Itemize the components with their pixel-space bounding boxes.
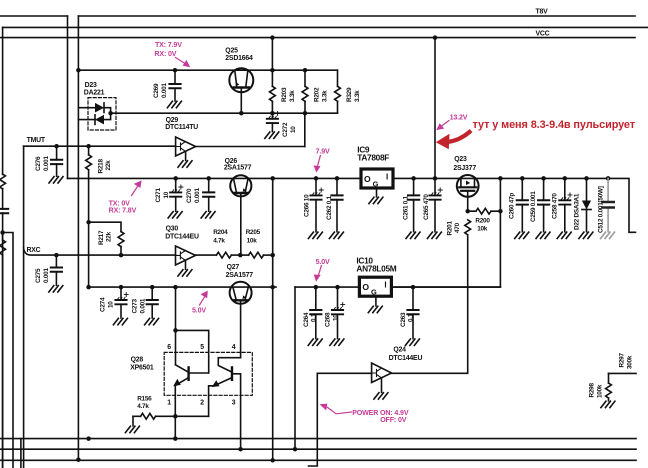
annotation pink arrow to TX rail — [176, 58, 187, 65]
node dot C261 — [411, 176, 416, 181]
node dot pin6 junction — [173, 328, 178, 333]
svg-text:300k: 300k — [626, 355, 633, 369]
svg-text:C276: C276 — [35, 156, 42, 171]
svg-text:Q23: Q23 — [454, 156, 467, 163]
svg-text:13.2V: 13.2V — [450, 113, 468, 121]
wire vertical x=67.5 from T8V bus to 8V rail — [67, 16, 69, 178]
node junction dot left edge — [0, 230, 5, 235]
resistor R202 3.3k — [304, 70, 306, 113]
ground Q24 — [381, 378, 383, 392]
node dot riser295 on line2 — [293, 447, 298, 452]
wire riser x=500.4 source-gate — [394, 178, 500, 287]
svg-text:R200: R200 — [475, 218, 490, 225]
node dot 5V rail start — [86, 285, 91, 290]
node dot C274 — [119, 285, 124, 290]
svg-text:C270: C270 — [186, 188, 193, 203]
transistor Q24 DTC144EU digital — [372, 363, 392, 383]
svg-text:100k: 100k — [596, 384, 603, 398]
svg-text:R205: R205 — [246, 229, 261, 236]
ground IC10 — [375, 298, 377, 306]
wire pin1 to bus — [174, 416, 176, 438]
node dot C273 — [150, 285, 155, 290]
svg-text:0.001: 0.001 — [161, 83, 168, 98]
wire Q28 pin5/6 feed — [175, 287, 177, 330]
svg-text:2SJ377: 2SJ377 — [453, 165, 476, 172]
node dot D23 output — [108, 111, 113, 116]
wire RXC horizontal with curve joint — [24, 248, 176, 255]
diode D23 bottom element — [78, 119, 95, 121]
svg-text:4.7k: 4.7k — [213, 237, 225, 244]
transistor Q26 2SA1577 — [230, 175, 251, 196]
wire VCC riser to IC9 input — [434, 38, 436, 179]
node dot R200 right — [498, 209, 503, 214]
svg-text:C263: C263 — [400, 312, 407, 327]
wire Q30 output — [196, 254, 217, 256]
capacitor unlabeled series on left edge — [0, 209, 8, 213]
ground R156 — [132, 416, 134, 426]
transistor Q28 left element — [176, 365, 188, 372]
wire T8V bus right segment — [78, 15, 635, 17]
svg-text:C258 470: C258 470 — [551, 193, 558, 219]
wire riser x=304.8 Q29 to R202 — [304, 113, 306, 146]
svg-text:DTC144EU: DTC144EU — [389, 355, 423, 362]
transistor Q28 right element — [218, 358, 240, 372]
svg-text:R298: R298 — [589, 383, 596, 398]
node dot R203 top — [270, 68, 275, 73]
wire vertical x=21.5 bottom stub — [20, 439, 22, 468]
svg-text:Q29: Q29 — [166, 117, 179, 124]
node dot R156 pin1 — [173, 414, 178, 419]
diode D22 DSA3A1 — [586, 178, 588, 231]
node dot pin3 on line2 — [238, 447, 243, 452]
wire VCC bus — [0, 37, 635, 39]
svg-text:R202: R202 — [314, 87, 321, 102]
ground Q29 — [185, 152, 187, 161]
capacitor C263 0.1 — [412, 287, 414, 339]
svg-text:C274: C274 — [100, 297, 107, 312]
capacitor C271 10 electrolytic — [175, 178, 177, 211]
capacitor C262 0.1 — [336, 178, 338, 231]
svg-text:C265 470: C265 470 — [423, 194, 430, 220]
node dot C258 — [563, 176, 568, 181]
node dot D22 — [584, 176, 589, 181]
wire TMUT/RXC vertical x=23.6 — [23, 146, 25, 468]
svg-text:0.1: 0.1 — [408, 313, 415, 322]
svg-text:R204: R204 — [213, 229, 228, 236]
node dot gate — [465, 209, 470, 214]
svg-text:7.9V: 7.9V — [316, 148, 330, 156]
capacitor C274 10 electrolytic — [120, 287, 122, 318]
svg-text:22k: 22k — [105, 160, 112, 171]
svg-text:10: 10 — [107, 301, 114, 308]
svg-text:R329: R329 — [346, 87, 353, 102]
resistor R297 300k wire — [609, 372, 637, 374]
node dot R202 top — [303, 68, 308, 73]
svg-text:O: O — [362, 282, 369, 292]
wire power-on riser and Q24 input — [309, 373, 372, 466]
resistor R205 10k — [240, 254, 248, 256]
svg-text:22k: 22k — [106, 231, 113, 242]
capacitor C265 470 electrolytic — [434, 178, 436, 231]
capacitor C266 10 electrolytic — [315, 178, 317, 231]
transistor Q23 2SJ377 mosfet — [457, 175, 479, 197]
svg-text:RXC: RXC — [27, 247, 41, 254]
svg-text:0.001: 0.001 — [139, 298, 146, 313]
wire Q26 base stub to RXC rail — [240, 194, 242, 255]
svg-text:3.3k: 3.3k — [354, 90, 361, 102]
capacitor C270 0.001 — [208, 178, 210, 211]
svg-text:10: 10 — [332, 314, 339, 321]
svg-text:Q24: Q24 — [393, 346, 406, 353]
svg-text:2SA1577: 2SA1577 — [224, 164, 252, 171]
node dot VCC tap IC9 input — [433, 35, 438, 40]
node dot x78 on line3 — [76, 457, 81, 462]
svg-text:470: 470 — [454, 222, 461, 233]
diode D23 top element — [78, 107, 95, 109]
svg-text:D23: D23 — [85, 82, 97, 89]
node dot riser500 top — [498, 176, 503, 181]
wire pin2 link — [175, 415, 208, 417]
svg-text:C262 0.1: C262 0.1 — [326, 195, 333, 220]
wire Q25 base stub — [240, 89, 242, 113]
resistor R217 22k — [89, 222, 121, 255]
svg-text:C268: C268 — [325, 312, 332, 327]
capacitor C261 0.1 — [413, 178, 415, 231]
transistor Q27 2SA1577 — [230, 282, 252, 304]
svg-text:C272: C272 — [282, 122, 289, 137]
node dot R217 tap — [86, 220, 91, 225]
node dot C266 + 7.9V point — [314, 176, 319, 181]
svg-text:10k: 10k — [247, 237, 258, 244]
svg-text:RX: 0V: RX: 0V — [154, 50, 176, 58]
capacitor C512 0.001[50W] gray — [607, 178, 609, 231]
svg-text:C266 10: C266 10 — [303, 194, 310, 217]
transistor Q30 DTC144EU digital — [176, 246, 196, 265]
resistor R204 4.7k — [216, 252, 231, 258]
svg-text:C273: C273 — [132, 299, 139, 314]
svg-text:R201: R201 — [446, 221, 453, 236]
node dot Q26 base junction — [238, 253, 243, 258]
transistor Q29 DTC114TU digital — [176, 137, 196, 156]
wire 8V rail y=178.4 — [68, 178, 636, 232]
svg-text:Q30: Q30 — [166, 226, 179, 233]
svg-text:I: I — [386, 172, 388, 181]
svg-text:VCC: VCC — [536, 30, 550, 37]
wire from left edge dot to x13 — [3, 233, 13, 468]
node dot C269 — [173, 68, 178, 73]
wire T8V bus left segment — [0, 15, 68, 17]
resistor unlabeled lower on left edge — [2, 233, 4, 241]
node dot C512 — [606, 176, 611, 181]
wire bus line 2 — [3, 26, 648, 28]
svg-text:0.001: 0.001 — [43, 268, 50, 283]
resistor R218 22k — [88, 146, 90, 222]
wire riser x=272.7 — [272, 178, 274, 460]
svg-text:G: G — [371, 288, 377, 297]
svg-text:1: 1 — [167, 399, 171, 406]
svg-text:C271: C271 — [155, 188, 162, 203]
node dot C271 — [173, 176, 178, 181]
svg-text:Q28: Q28 — [131, 357, 144, 364]
svg-text:C260 47p: C260 47p — [509, 193, 516, 219]
capacitor C275 — [55, 255, 57, 285]
node dot C260 — [520, 176, 525, 181]
capacitor C264 0.1 — [315, 287, 317, 339]
node dot riser272 mid — [270, 253, 275, 258]
svg-text:0.001: 0.001 — [43, 156, 50, 171]
wire to pin5 — [176, 330, 209, 373]
node dot VCC tap R203 — [270, 35, 275, 40]
svg-text:0.001: 0.001 — [194, 188, 201, 203]
svg-text:C512 0.001[50W]: C512 0.001[50W] — [598, 186, 605, 233]
resistor R203 3.3k — [271, 70, 273, 113]
svg-text:3.3k: 3.3k — [321, 90, 328, 102]
svg-text:2SD1664: 2SD1664 — [225, 55, 253, 62]
svg-text:3.3k: 3.3k — [289, 90, 296, 102]
wire Q23 gate stub — [467, 191, 469, 211]
svg-text:AN78L05M: AN78L05M — [356, 264, 396, 274]
node dot riser272 top — [270, 176, 275, 181]
node dot Q25 base — [239, 111, 244, 116]
resistor R298 100k — [608, 373, 610, 400]
resistor R201 470 — [467, 236, 469, 373]
wire Q27 base stub — [240, 302, 242, 358]
svg-text:10k: 10k — [477, 226, 488, 233]
svg-text:5.0V: 5.0V — [316, 258, 330, 266]
node dot R202 bottom — [303, 111, 308, 116]
node dot C270 — [206, 176, 211, 181]
svg-text:DA221: DA221 — [84, 90, 105, 97]
svg-text:4.7k: 4.7k — [137, 403, 149, 410]
svg-text:R218: R218 — [97, 159, 104, 174]
svg-text:I: I — [384, 281, 386, 290]
node dot C262 — [335, 176, 340, 181]
node dot R217 bottom — [119, 253, 124, 258]
svg-text:OFF: 0V: OFF: 0V — [380, 416, 407, 424]
svg-text:Q25: Q25 — [225, 48, 238, 55]
ground IC9 — [376, 190, 378, 197]
svg-text:T8V: T8V — [536, 9, 549, 16]
svg-text:5.0V: 5.0V — [192, 307, 206, 315]
node dot C264 — [314, 285, 319, 290]
ground Q30 — [185, 261, 187, 270]
svg-text:4: 4 — [232, 344, 236, 351]
transistor Q28 XP6501 dashed box — [164, 352, 252, 395]
svg-text:тут у меня 8.3-9.4в пульсирует: тут у меня 8.3-9.4в пульсирует — [473, 119, 636, 131]
svg-text:O: O — [364, 174, 371, 184]
wire TX rail y=70 — [78, 69, 337, 71]
node dot C263 — [411, 285, 416, 290]
node dot riser272 at 5V rail — [270, 285, 275, 290]
wire bottom bus line 2 — [0, 448, 636, 450]
svg-text:5: 5 — [200, 344, 204, 351]
capacitor C268 10 electrolytic — [337, 287, 339, 339]
svg-text:C261 0.1: C261 0.1 — [402, 195, 409, 220]
svg-text:C275: C275 — [35, 268, 42, 283]
regulator IC10 AN78L05M — [359, 277, 391, 296]
wire R218 continues down — [88, 222, 90, 287]
svg-text:DTC144EU: DTC144EU — [165, 234, 199, 241]
svg-text:DTC114TU: DTC114TU — [165, 124, 198, 131]
svg-text:10: 10 — [163, 191, 170, 198]
svg-text:C259 0.001: C259 0.001 — [530, 191, 537, 222]
svg-text:R156: R156 — [137, 396, 152, 403]
wire 5V rail y=287.1 — [89, 286, 276, 288]
svg-text:C264: C264 — [303, 312, 310, 327]
node dot R203 bottom — [270, 111, 275, 116]
node dot C265 — [433, 176, 438, 181]
node dot pin1 on line1 — [173, 436, 178, 441]
svg-text:Q27: Q27 — [227, 264, 240, 271]
capacitor C273 0.001 — [151, 287, 153, 318]
svg-text:G: G — [373, 179, 379, 188]
capacitor C258 470 electrolytic — [564, 178, 566, 231]
svg-text:TA7808F: TA7808F — [357, 153, 389, 163]
svg-text:6: 6 — [167, 344, 171, 351]
wire VCC riser to TX rail — [271, 38, 273, 71]
node dot C275 — [54, 253, 59, 258]
svg-text:TMUT: TMUT — [27, 137, 46, 144]
wire bottom bus line 3 — [0, 459, 636, 461]
annotation red arrow — [448, 132, 470, 142]
wire vertical x=78.4 from T8V bus down — [77, 16, 79, 460]
svg-text:2: 2 — [200, 399, 204, 406]
transistor Q25 2SD1664 — [229, 68, 253, 92]
node dot Q28 tap — [173, 285, 178, 290]
svg-text:3: 3 — [232, 399, 236, 406]
node dot riser272 on line3 — [270, 458, 275, 463]
wire Q24 output to Q23 gate chain — [392, 372, 468, 375]
svg-text:R297: R297 — [619, 353, 626, 368]
resistor R329 3.3k — [337, 70, 339, 113]
svg-text:2SA1577: 2SA1577 — [226, 272, 254, 279]
node dot R218 on TMUT — [86, 144, 91, 149]
resistor R200 10k — [468, 210, 501, 212]
svg-text:R217: R217 — [98, 230, 105, 245]
node dot C276 — [54, 144, 59, 149]
capacitor C272 10 electrolytic — [271, 113, 273, 131]
node dot C268 — [335, 285, 340, 290]
svg-text:XP6501: XP6501 — [130, 365, 154, 372]
svg-text:TX: 7.9V: TX: 7.9V — [155, 41, 182, 49]
capacitor C269 — [174, 70, 176, 101]
wire 5V out segment — [295, 286, 500, 288]
svg-text:C269: C269 — [153, 83, 160, 98]
wire TMUT horizontal — [24, 145, 176, 147]
node dot TX rail tap — [76, 68, 81, 73]
wire pin6 down — [175, 330, 177, 364]
svg-text:10: 10 — [290, 126, 297, 133]
wire bottom bus line 1 — [0, 438, 636, 440]
svg-text:RX: 7.8V: RX: 7.8V — [109, 207, 137, 215]
svg-text:0.1: 0.1 — [311, 313, 318, 322]
svg-text:D22 DSA3A1: D22 DSA3A1 — [574, 193, 581, 230]
wire base rail y=113.2 — [111, 112, 338, 114]
capacitor C260 47p — [521, 178, 523, 231]
capacitor C276 — [56, 146, 58, 176]
diode D23 DA221 dashed box — [88, 98, 116, 130]
regulator IC9 TA7808F — [361, 169, 393, 188]
svg-text:R203: R203 — [281, 87, 288, 102]
wire riser x=295 down — [294, 287, 296, 449]
resistor unlabeled upper on left edge — [0, 174, 6, 189]
wire left edge vertical x=2.6 — [2, 27, 4, 468]
capacitor C259 0.001 — [543, 178, 545, 231]
annotation pink arrow to 8V rail — [132, 185, 139, 196]
node dot C259 — [541, 176, 546, 181]
node dot x88 on line1 — [86, 436, 91, 441]
wire Q29 output to base rail — [196, 146, 305, 148]
